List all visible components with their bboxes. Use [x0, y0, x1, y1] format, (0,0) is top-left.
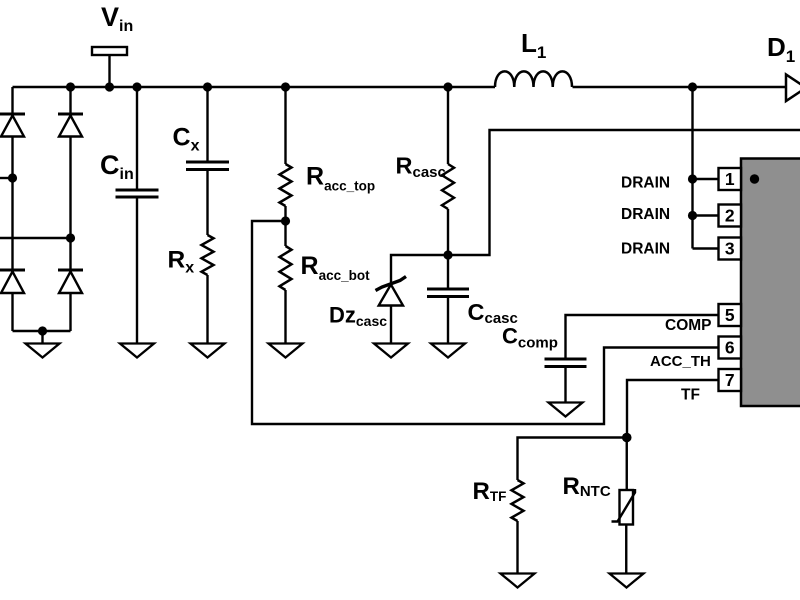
wire: drain stub pin 2: [693, 214, 719, 216]
svg-text:Racc_bot: Racc_bot: [301, 252, 371, 283]
wire: RNTC branch: [625, 438, 628, 574]
IC pin-1 marker dot: [750, 174, 759, 183]
wire: drain stub pin 1: [693, 178, 719, 180]
thermistor RNTC: [612, 489, 636, 525]
svg-text:D1: D1: [767, 32, 795, 66]
ground: Ccomp: [549, 403, 583, 417]
node: Vin on rail: [105, 82, 114, 91]
ground: Cin: [120, 344, 154, 358]
pin 2: [719, 205, 742, 227]
node: AC2 junction: [66, 233, 75, 242]
svg-text:DRAIN: DRAIN: [621, 241, 670, 258]
inductor L1: [495, 71, 572, 87]
resistor Rx: [202, 235, 214, 275]
pin 1: [719, 168, 742, 190]
node: Cx on rail: [203, 82, 212, 91]
ground: RTF: [501, 574, 535, 588]
ground: Dzcasc: [374, 344, 408, 358]
node: drain junction pin 1: [688, 174, 697, 183]
wire: top rail right section: [573, 86, 787, 88]
node: cascode node: [443, 250, 452, 259]
resistor Racc_top: [280, 164, 292, 206]
node: AC1 junction: [8, 173, 17, 182]
ground: Rx: [191, 344, 225, 358]
resistor Racc_bot: [280, 246, 292, 290]
node: drain junction pin 2: [688, 211, 697, 220]
svg-text:Rcasc: Rcasc: [396, 153, 446, 182]
node: drain tap on rail: [688, 82, 697, 91]
svg-text:3: 3: [725, 239, 735, 259]
svg-text:RTF: RTF: [473, 478, 507, 505]
svg-text:5: 5: [725, 305, 735, 325]
svg-text:Rx: Rx: [168, 247, 195, 277]
wire: top rail left section: [13, 86, 496, 88]
wire: bridge bottom: [13, 331, 71, 344]
svg-text:ACC_TH: ACC_TH: [650, 353, 711, 370]
node: Rcasc on rail: [443, 82, 452, 91]
wire: bridge right branch: [69, 87, 71, 331]
wire: TF node to RTF: [518, 438, 627, 574]
wire: Racc branch: [284, 87, 286, 344]
svg-text:COMP: COMP: [665, 317, 712, 334]
ground: bridge: [26, 344, 60, 358]
svg-text:Cin: Cin: [100, 150, 134, 183]
wire: zener branch: [391, 255, 448, 344]
wire: drain stub pin 3: [693, 247, 719, 249]
svg-text:DRAIN: DRAIN: [621, 206, 670, 223]
terminal Vin: [92, 47, 127, 87]
node: bridge top right on rail: [66, 82, 75, 91]
node: TF junction: [622, 433, 632, 443]
svg-text:TF: TF: [681, 387, 700, 404]
svg-text:Vin: Vin: [101, 2, 133, 35]
zener diode Dzcasc: [376, 277, 407, 306]
bridge diode top-right: [58, 114, 83, 137]
capacitor Ccomp: [545, 359, 587, 367]
wire: TF from pin 7: [627, 380, 719, 438]
wire: ACC_TH route from divider to pin 6: [252, 221, 719, 424]
svg-text:RNTC: RNTC: [563, 473, 611, 500]
wire: AC input line 2: [0, 237, 71, 239]
svg-text:Racc_top: Racc_top: [306, 163, 375, 194]
wire: cascode node to output line: [448, 130, 800, 255]
pin 3: [719, 238, 742, 260]
wire: Cx Rx branch: [206, 87, 208, 344]
resistor RTF: [512, 480, 524, 521]
wire: Cin branch: [136, 87, 138, 344]
svg-text:Cx: Cx: [173, 124, 200, 155]
ground: Ccasc: [431, 344, 465, 358]
bridge diode top-left: [0, 114, 25, 137]
pin 7: [719, 369, 742, 391]
svg-text:6: 6: [725, 338, 735, 358]
pin 6: [719, 337, 742, 359]
capacitor Ccasc: [427, 289, 469, 297]
diode D1: [786, 75, 800, 102]
node: bridge bottom center: [38, 326, 47, 335]
svg-text:Ccomp: Ccomp: [502, 324, 558, 352]
node: Racc on rail: [281, 82, 290, 91]
node: Racc divider junction: [281, 216, 290, 225]
svg-text:L1: L1: [521, 28, 546, 62]
wire: COMP to Ccomp: [566, 315, 719, 403]
bridge diode bottom-right: [58, 270, 83, 293]
IC U1 body: [741, 159, 800, 407]
svg-text:1: 1: [725, 169, 735, 189]
resistor Rcasc: [442, 164, 454, 209]
svg-text:DRAIN: DRAIN: [621, 175, 670, 192]
ground: Racc_bot: [269, 344, 303, 358]
ground: RNTC: [610, 574, 644, 588]
wire: AC input line 1: [0, 177, 13, 179]
capacitor Cx: [186, 162, 229, 170]
svg-text:2: 2: [725, 206, 735, 226]
wire: bridge left branch: [11, 87, 13, 331]
bridge diode bottom-left: [0, 270, 25, 293]
svg-text:7: 7: [725, 370, 735, 390]
pin 5: [719, 304, 742, 326]
node: Cin on rail: [132, 82, 141, 91]
wire: Rcasc branch: [447, 87, 449, 344]
wire: drain vertical: [691, 87, 693, 249]
capacitor Cin: [116, 190, 159, 197]
